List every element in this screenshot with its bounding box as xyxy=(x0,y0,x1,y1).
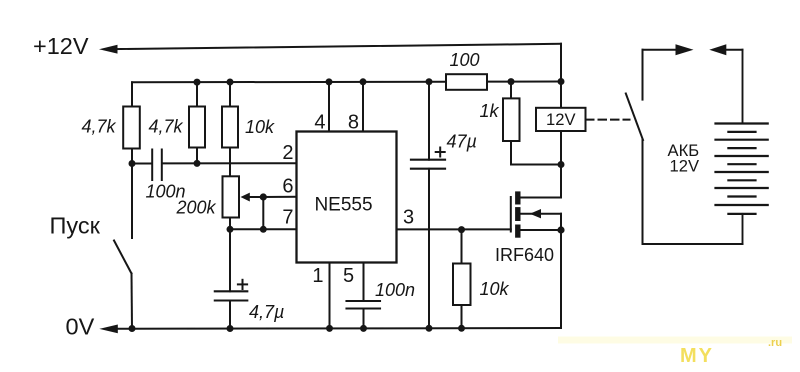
wire source down to 0V rail xyxy=(560,230,562,328)
wiper arrow of R4 xyxy=(241,193,264,202)
svg-text:.ru: .ru xyxy=(768,337,782,349)
body wire with arrow xyxy=(518,213,561,215)
channel segment middle xyxy=(515,207,520,221)
wire R2 top drop xyxy=(196,82,198,107)
junction C3 on 0V rail xyxy=(227,325,234,332)
label R7 value 10k xyxy=(480,279,510,299)
svg-text:10k: 10k xyxy=(245,117,275,137)
label R3 value 10k xyxy=(245,117,275,137)
junction pin8 on rail xyxy=(360,78,367,85)
blade xyxy=(114,241,132,274)
svg-text:3: 3 xyxy=(403,207,414,229)
svg-text:5: 5 xyxy=(343,265,354,287)
capacitor C2 47µ electrolytic xyxy=(411,160,445,169)
svg-text:4,7k: 4,7k xyxy=(82,117,117,137)
junction R2 on rail xyxy=(194,79,201,86)
svg-text:47µ: 47µ xyxy=(447,132,477,152)
label R2 value 4,7k xyxy=(149,117,184,137)
right lead xyxy=(725,49,743,51)
wire C2 bottom long drop to 0V rail xyxy=(428,169,430,329)
wire pin1 to 0V rail xyxy=(329,263,331,329)
switch SA1 Пуск xyxy=(114,164,132,329)
wire R3 top drop xyxy=(229,82,231,107)
wire pin8 to rail xyxy=(362,82,364,132)
svg-text:2: 2 xyxy=(282,142,293,164)
label SA1 Пуск xyxy=(50,213,101,239)
dashed link coil to contact xyxy=(586,119,630,121)
wire C3 bottom to 0V rail xyxy=(229,301,231,329)
pin label 3 xyxy=(403,207,414,229)
svg-text:100n: 100n xyxy=(375,280,415,300)
resistor R2 4,7k xyxy=(189,107,205,148)
junction wiper drop on pin7 net xyxy=(260,226,267,233)
svg-text:MY: MY xyxy=(680,345,714,367)
pin label 1 xyxy=(312,265,323,287)
pin label 4 xyxy=(314,112,325,134)
pin label 6 xyxy=(282,176,293,198)
wire R7 top xyxy=(461,230,463,264)
resistor R5 100 (horizontal, in rail) xyxy=(446,74,487,90)
svg-text:Пуск: Пуск xyxy=(50,213,101,239)
pin label 5 xyxy=(343,265,354,287)
wire battery bottom return xyxy=(643,243,743,245)
capacitor C3 4,7µ electrolytic xyxy=(215,291,248,300)
label K1 12V xyxy=(546,110,576,129)
label GB1 12V xyxy=(670,157,700,176)
label Q1 IRF640 xyxy=(495,245,554,265)
svg-text:4: 4 xyxy=(314,112,325,134)
label U1 NE555 xyxy=(314,195,372,216)
junction C4 on 0V rail xyxy=(360,325,367,332)
left lead elbow xyxy=(642,50,644,100)
right-pointing arrow xyxy=(676,44,694,55)
svg-text:0V: 0V xyxy=(66,314,95,340)
label R4 value 200k xyxy=(176,198,217,218)
wire pin3 net to gate xyxy=(397,228,511,230)
cell plates long xyxy=(716,122,768,124)
battery GB1 АКБ 12V xyxy=(716,50,768,244)
label R6 value 1k xyxy=(480,101,500,121)
svg-text:4,7µ: 4,7µ xyxy=(249,302,284,322)
resistor R1 4,7k xyxy=(123,107,140,149)
potentiometer R4 200k body xyxy=(223,176,240,217)
junction C2 on rail xyxy=(426,78,433,85)
wire R7 bottom to 0V rail xyxy=(461,305,463,329)
svg-text:6: 6 xyxy=(282,176,293,198)
relay coil K1 12V box xyxy=(536,108,586,131)
wire pin2 net xyxy=(132,162,297,164)
junction pin3 / R7 xyxy=(458,226,465,233)
wire 0V bottom rail with left arrow xyxy=(99,325,561,334)
node +12V label xyxy=(33,33,89,59)
label C1 value 100n xyxy=(146,182,186,202)
svg-text:IRF640: IRF640 xyxy=(495,245,554,265)
label R5 value 100 xyxy=(450,50,480,70)
label C4 value 100n xyxy=(375,280,415,300)
fixed contact drop from pin2 node xyxy=(131,164,133,239)
watermark faint bar xyxy=(558,337,792,344)
wire R3 bottom to potentiometer xyxy=(229,148,231,177)
label C3 value 4,7µ xyxy=(249,302,284,322)
junction source / body / down wire xyxy=(557,226,564,233)
bottom lead xyxy=(131,274,134,329)
label C2 value 47µ xyxy=(447,132,477,152)
source wire xyxy=(518,229,561,231)
junction pin1 on 0V rail xyxy=(326,325,333,332)
svg-text:12V: 12V xyxy=(670,157,700,176)
capacitor C4 100n xyxy=(347,301,381,309)
junction C2 on 0V rail xyxy=(426,325,433,332)
wire C2 top drop from rail xyxy=(428,82,430,160)
wire R2 bottom xyxy=(196,148,198,164)
wire R4 bottom to C3 xyxy=(229,218,231,292)
drain wire xyxy=(518,197,561,199)
wire R1 top drop xyxy=(131,82,133,106)
wire pin6 net xyxy=(263,196,296,198)
left-pointing arrow xyxy=(709,44,726,55)
label R1 value 4,7k xyxy=(82,117,117,137)
svg-text:7: 7 xyxy=(282,207,293,229)
relay contact K1.1 with connector arrows xyxy=(626,44,743,244)
svg-text:1k: 1k xyxy=(480,101,500,121)
wire wiper down to pin7 net xyxy=(262,197,264,229)
resistor R6 1k xyxy=(503,98,520,141)
wire C4 bottom to 0V rail xyxy=(363,309,365,329)
channel segment bottom xyxy=(515,225,520,238)
svg-text:NE555: NE555 xyxy=(314,195,372,216)
junction R6 on rail xyxy=(508,78,515,85)
wire R6 top drop xyxy=(510,82,512,99)
wire main vertical from +12V rail down to MOSFET drain xyxy=(560,44,562,198)
pin label 7 xyxy=(282,207,293,229)
channel segment top xyxy=(515,191,520,204)
svg-text:1: 1 xyxy=(312,265,323,287)
node 0V label xyxy=(66,314,95,340)
svg-text:200k: 200k xyxy=(176,198,217,218)
svg-text:4,7k: 4,7k xyxy=(149,117,184,137)
cell plates short xyxy=(728,131,755,133)
op-amp/timer U1 NE555 box xyxy=(297,132,397,263)
capacitor C1 100n (series, vertical plates) xyxy=(152,150,162,181)
resistor R7 10k xyxy=(453,264,471,306)
junction R7 on 0V rail xyxy=(458,325,465,332)
svg-text:10k: 10k xyxy=(480,279,510,299)
positive terminal wire xyxy=(742,50,744,124)
junction pin2 / R1 / C1 xyxy=(129,160,136,167)
negative terminal wire xyxy=(742,214,744,244)
wire R1 bottom xyxy=(131,149,133,164)
wire +12V top rail with left arrow xyxy=(99,44,561,54)
svg-text:8: 8 xyxy=(348,112,359,134)
wire top distribution rail xyxy=(132,81,561,84)
svg-text:+12V: +12V xyxy=(33,33,89,59)
polarity plus of C3 xyxy=(238,280,247,289)
junction R6 elbow on main vertical xyxy=(558,161,565,168)
junction pin2 / R2 xyxy=(194,160,201,167)
pin label 2 xyxy=(282,142,293,164)
resistor R3 10k xyxy=(222,107,238,148)
wire pin5 to C4 xyxy=(363,263,365,302)
wire pin7 net xyxy=(230,228,297,230)
label GB1 АКБ xyxy=(668,141,700,160)
blade xyxy=(626,94,643,141)
lower lead xyxy=(642,140,644,244)
pin label 8 xyxy=(348,112,359,134)
junction SA1 on 0V rail xyxy=(129,325,136,332)
svg-text:100: 100 xyxy=(450,50,480,70)
wire pin4 to rail xyxy=(328,82,330,132)
polarity plus of C2 xyxy=(436,148,445,157)
junction R4 bottom / pin7 xyxy=(227,226,234,233)
junction wiper / pin6 xyxy=(260,193,267,200)
wire R6 bottom elbow to main vertical xyxy=(511,141,561,165)
junction pin4 on rail xyxy=(326,78,333,85)
transistor Q1 IRF640 MOSFET xyxy=(511,191,561,237)
junction main vertical on rail xyxy=(558,78,565,85)
junction R3 on rail xyxy=(227,79,234,86)
svg-text:12V: 12V xyxy=(546,110,576,129)
gate bar xyxy=(510,197,512,232)
